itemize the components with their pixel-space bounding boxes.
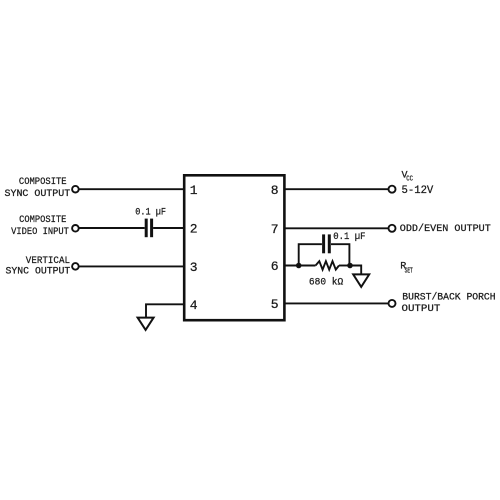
pin 5 number <box>271 297 279 312</box>
pin 6 number <box>271 259 279 274</box>
terminal: vertical sync output <box>72 263 79 270</box>
capacitor C2 0.1 uF (parallel with resistor) <box>324 234 330 253</box>
svg-text:4: 4 <box>190 298 198 313</box>
wire pin1 to terminal <box>79 188 184 190</box>
label ODD/EVEN OUTPUT <box>400 223 491 235</box>
svg-text:CC: CC <box>406 175 413 183</box>
IC U1 (8-pin sync separator, DIP-8 body) <box>184 175 284 320</box>
wire terminal to capacitor C1 <box>79 227 145 229</box>
svg-text:0.1 µF: 0.1 µF <box>333 232 365 243</box>
terminal: composite video input <box>72 225 79 232</box>
svg-text:COMPOSITE: COMPOSITE <box>19 177 67 188</box>
terminal: composite sync output <box>72 186 79 193</box>
label VERTICAL SYNC OUTPUT <box>6 256 71 278</box>
svg-text:5: 5 <box>271 297 279 312</box>
label R SET <box>400 261 413 275</box>
pin 4 number <box>190 298 198 313</box>
label 0.1 uF (C1) <box>135 207 166 218</box>
svg-text:7: 7 <box>271 222 279 237</box>
svg-text:VIDEO INPUT: VIDEO INPUT <box>11 227 69 238</box>
label 680 kOhm <box>309 277 343 289</box>
svg-text:1: 1 <box>190 183 198 198</box>
label BURST/BACK PORCH OUTPUT <box>402 292 496 315</box>
pin 7 number <box>271 222 279 237</box>
pin 3 number <box>190 260 198 275</box>
svg-text:2: 2 <box>190 222 198 237</box>
wire pin 6 to resistor <box>284 265 316 267</box>
wire pin 7 to odd/even terminal <box>284 227 389 229</box>
label 0.1 uF (C2) <box>333 232 365 243</box>
pin 8 number <box>271 183 279 198</box>
capacitor C1 0.1 uF (series, pin 2) <box>146 219 151 238</box>
svg-text:3: 3 <box>190 260 198 275</box>
ground (pin 6 net) <box>353 274 369 287</box>
label COMPOSITE SYNC OUTPUT <box>5 177 71 200</box>
node junction dot right (pin 6) <box>347 263 353 269</box>
wire pin 5 to burst/back porch terminal <box>284 302 389 304</box>
pin 1 number <box>190 183 198 198</box>
terminal: odd/even output <box>389 225 396 232</box>
wire to ground (pin 6 net) <box>350 266 361 275</box>
wire pin 8 to Vcc terminal <box>284 188 389 190</box>
wire resistor to ground corner <box>339 265 350 267</box>
svg-text:BURST/BACK PORCH: BURST/BACK PORCH <box>402 292 495 304</box>
ground (pin 4) <box>138 318 154 330</box>
svg-text:COMPOSITE: COMPOSITE <box>19 215 66 226</box>
svg-text:SYNC OUTPUT: SYNC OUTPUT <box>6 267 71 278</box>
svg-text:5-12V: 5-12V <box>402 185 434 197</box>
terminal: burst/back porch output <box>389 300 396 307</box>
wire pin3 to terminal <box>79 265 184 267</box>
terminal: Vcc <box>389 186 396 193</box>
svg-text:680 kΩ: 680 kΩ <box>309 277 343 289</box>
label COMPOSITE VIDEO INPUT <box>11 215 69 238</box>
svg-text:SET: SET <box>405 268 413 276</box>
svg-text:6: 6 <box>271 259 279 274</box>
svg-text:VERTICAL: VERTICAL <box>26 256 70 267</box>
svg-text:OUTPUT: OUTPUT <box>402 304 441 315</box>
svg-text:0.1 µF: 0.1 µF <box>135 207 166 218</box>
svg-text:SYNC OUTPUT: SYNC OUTPUT <box>5 189 71 200</box>
resistor 680 kOhm <box>316 261 340 269</box>
wire pin 4 to ground <box>146 304 184 317</box>
svg-text:8: 8 <box>271 183 279 198</box>
wire capacitor C1 to pin 2 <box>153 227 184 229</box>
svg-text:ODD/EVEN OUTPUT: ODD/EVEN OUTPUT <box>400 223 491 235</box>
wire capacitor C2 branch <box>299 244 350 266</box>
node junction dot left (pin 6) <box>296 263 302 269</box>
pin 2 number <box>190 222 198 237</box>
label Vcc 5-12V <box>402 170 434 197</box>
